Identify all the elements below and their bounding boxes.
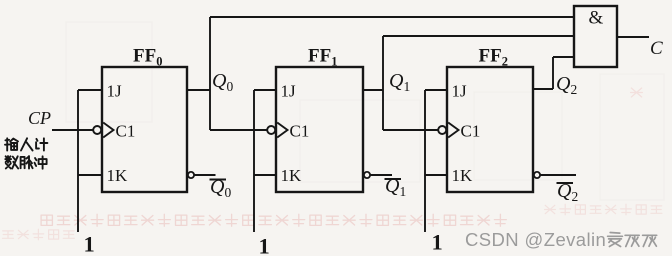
wire Q2 to AND gate input 3 (553, 56, 574, 58)
wire Q1 riser (node Q1) (382, 36, 384, 130)
svg-text:C1: C1 (461, 122, 481, 141)
wire 1K input (FF0) (78, 174, 102, 176)
wire 1J input (FF2) (425, 89, 447, 91)
wire Qbar1 stub (370, 174, 392, 176)
clock input bubble C1 (FF2) (438, 126, 446, 134)
wire 1J input (FF0) (78, 89, 102, 91)
wire 1J input (FF1) (254, 89, 276, 91)
wire Q1 to FF2 clock (383, 129, 438, 131)
svg-text:1K: 1K (107, 166, 129, 185)
wire 1K input (FF2) (425, 174, 447, 176)
wire Q2 output stub (533, 88, 553, 90)
wire AND gate output C (617, 36, 649, 38)
wire Q0 to FF1 clock (210, 129, 267, 131)
clock edge triangle (FF1) (277, 123, 287, 138)
svg-text:C: C (650, 38, 663, 59)
clock edge triangle (FF2) (448, 123, 458, 138)
wire Q1 output stub (363, 89, 383, 91)
wire 1K input (FF1) (254, 174, 276, 176)
svg-text:CP: CP (28, 108, 51, 128)
svg-text:1: 1 (432, 230, 443, 255)
output bubble Qbar0 (FF0) (188, 172, 194, 178)
svg-text:1K: 1K (281, 166, 303, 185)
svg-text:C1: C1 (290, 122, 310, 141)
wire Q0 output stub (187, 89, 210, 91)
flip-flop FF2 box (447, 67, 533, 192)
output bubble Qbar2 (FF2) (534, 172, 540, 178)
wire Qbar0 stub (193, 174, 215, 176)
wire Q1 feedback to AND gate input 2 (383, 35, 574, 37)
svg-text:CSDN @Zevalin: CSDN @Zevalin (465, 229, 606, 250)
svg-text:1: 1 (84, 232, 95, 256)
AND gate box (574, 6, 617, 67)
wire Q0 riser (node Q0) (209, 17, 211, 130)
clock edge triangle (FF0) (103, 123, 113, 138)
output bubble Qbar1 (FF1) (364, 172, 370, 178)
label input-counting-pulse (Chinese) line1 (5, 138, 47, 150)
wire Qbar2 stub (540, 174, 576, 176)
wire J-K tie to logic 1 (FF1) (253, 90, 255, 232)
svg-text:1: 1 (259, 234, 270, 256)
clock input bubble C1 (FF1) (267, 126, 275, 134)
wire J-K tie to logic 1 (FF2) (424, 90, 426, 232)
svg-text:1K: 1K (452, 166, 474, 185)
flip-flop FF0 box (102, 67, 187, 192)
clock input bubble C1 (FF0) (93, 126, 101, 134)
svg-text:1J: 1J (452, 82, 468, 101)
label input-counting-pulse (Chinese) line2 (5, 156, 46, 169)
svg-text:1J: 1J (281, 82, 297, 101)
wire J-K tie to logic 1 (FF0) (77, 90, 79, 232)
wire Q0 feedback to AND gate input 1 (210, 16, 574, 18)
wire Q2 riser (node Q2) (552, 57, 554, 89)
flip-flop FF1 box (276, 67, 363, 192)
svg-text:&: & (589, 8, 604, 29)
wire CP input to FF0 clock (52, 129, 93, 131)
svg-text:C1: C1 (116, 122, 136, 141)
svg-text:1J: 1J (107, 82, 123, 101)
